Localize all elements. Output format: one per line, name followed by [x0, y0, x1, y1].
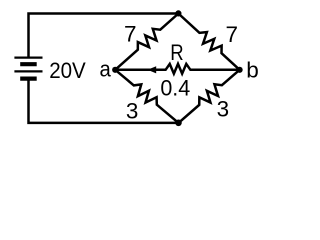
junction dot: bottom node — [175, 120, 182, 127]
svg-text:7: 7 — [225, 22, 238, 47]
circuit schematic: 20V source driving a resistor bridge 7/7/3/3 with middle resistor R=0.4 between nodes a and b — [0, 0, 268, 138]
junction dot: top node — [175, 10, 181, 16]
wire: from battery - terminal down and along bottom rail to bottom junction — [29, 79, 179, 123]
battery bottom short thick plate — [20, 76, 37, 80]
node a junction dot — [112, 67, 118, 73]
svg-text:7: 7 — [124, 21, 137, 46]
svg-text:3: 3 — [126, 99, 139, 124]
current direction arrowhead pointing left toward node a — [148, 66, 157, 73]
battery 20V: top long plate — [14, 56, 42, 58]
svg-text:a: a — [100, 56, 112, 81]
svg-text:20V: 20V — [49, 58, 86, 83]
svg-text:0.4: 0.4 — [160, 75, 190, 100]
battery second long plate — [14, 70, 42, 72]
resistor R=0.4 (middle branch, node a to node b) — [115, 64, 239, 74]
resistor 3 lower-left (node a to bottom junction) — [115, 70, 178, 123]
resistor 7 upper-left (node a to top junction) — [115, 14, 178, 70]
svg-text:R: R — [170, 40, 183, 65]
svg-text:3: 3 — [217, 96, 230, 121]
resistor 7 upper-right (top junction to node b) — [178, 14, 239, 70]
node b junction dot — [237, 67, 243, 73]
wire: top rail from battery + terminal to top junction, left rail down — [29, 14, 179, 58]
resistor 3 lower-right (bottom junction to node b) — [179, 70, 240, 123]
battery short thick plate — [20, 62, 37, 66]
svg-text:b: b — [246, 57, 259, 82]
